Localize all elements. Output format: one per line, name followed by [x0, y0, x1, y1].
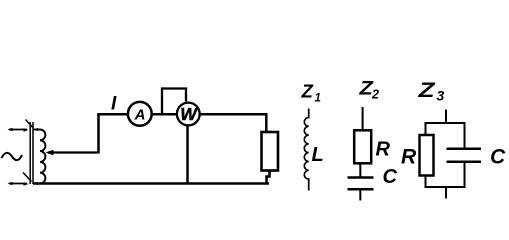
wattmeter W: [177, 103, 200, 126]
label I: [111, 94, 117, 115]
capacitor C (Z2): [348, 163, 374, 200]
label Z2: [358, 78, 379, 102]
resistor R (Z2) top lead: [362, 107, 364, 131]
label Z3: [417, 78, 444, 103]
resistor R (Z2): [354, 130, 371, 163]
svg-text:C: C: [490, 146, 506, 169]
label R (Z2): [376, 139, 391, 161]
svg-text:3: 3: [437, 88, 445, 104]
svg-text:R: R: [376, 139, 391, 161]
svg-text:Z: Z: [301, 81, 314, 102]
autotransformer T1 primary bars: [30, 122, 33, 184]
wattmeter voltage-coil bridge: [162, 89, 186, 115]
capacitor C (Z3) with leads: [447, 122, 482, 188]
ammeter A: [128, 102, 152, 126]
label L: [312, 144, 324, 166]
svg-text:1: 1: [315, 93, 321, 105]
wire ammeter to wattmeter: [151, 113, 178, 116]
svg-text:C: C: [383, 166, 398, 188]
bottom rail wire: [33, 182, 269, 185]
label R (Z3): [401, 146, 417, 169]
supply lead top (double-headed arrow): [8, 128, 29, 132]
ac source G1 (~): [2, 153, 23, 160]
load resistor: [262, 132, 279, 184]
svg-text:W: W: [180, 104, 198, 124]
resistor R (Z3) with leads: [420, 122, 434, 188]
svg-text:R: R: [401, 146, 417, 169]
svg-text:I: I: [111, 94, 117, 115]
inductor L (Z1): [304, 109, 308, 191]
supply lead bottom (double-headed arrow): [8, 182, 29, 186]
wiper arrow wire: [46, 114, 99, 155]
wire wiper riser to ammeter: [97, 113, 128, 116]
svg-text:L: L: [312, 144, 324, 166]
svg-text:A: A: [134, 107, 146, 124]
label C (Z3): [490, 146, 506, 169]
label Z1: [301, 81, 321, 105]
transformer diagonal tick bottom: [23, 173, 32, 182]
wire Z3 top lead and bar: [425, 110, 466, 125]
label C (Z2): [383, 166, 398, 188]
svg-text:Z: Z: [417, 78, 436, 102]
svg-text:2: 2: [371, 88, 379, 102]
autotransformer T1 winding: [33, 128, 45, 185]
wattmeter bottom lead: [186, 125, 189, 184]
wire wattmeter to load corner: [200, 114, 267, 132]
transformer diagonal tick top: [26, 120, 33, 128]
wire Z3 bottom bar and lead: [425, 187, 466, 199]
